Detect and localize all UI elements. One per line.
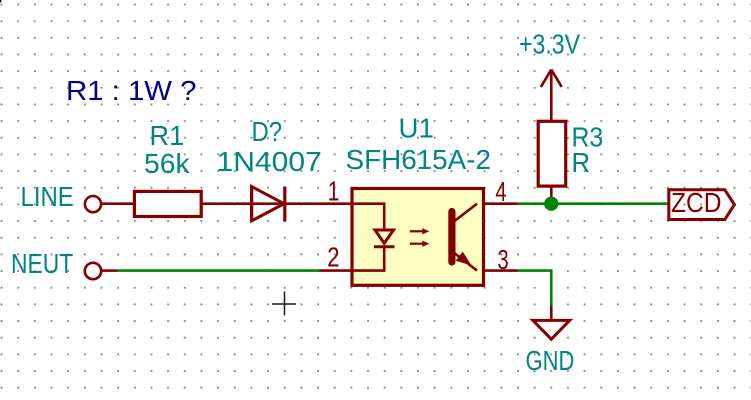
svg-text:+3.3V: +3.3V [519,29,581,60]
svg-text:LINE: LINE [21,181,74,212]
svg-text:D?: D? [252,116,283,147]
svg-text:SFH615A-2: SFH615A-2 [346,144,492,175]
svg-text:4: 4 [495,176,506,207]
svg-text:GND: GND [526,345,575,376]
svg-text:U1: U1 [399,112,434,143]
svg-text:1N4007: 1N4007 [217,146,322,177]
svg-text:R1 : 1W ?: R1 : 1W ? [66,75,197,106]
svg-text:R1: R1 [150,120,185,151]
svg-text:R: R [572,147,591,178]
svg-text:3: 3 [497,244,508,275]
svg-text:NEUT: NEUT [11,248,73,279]
svg-text:ZCD: ZCD [671,187,722,218]
svg-text:2: 2 [327,242,340,273]
svg-text:56k: 56k [144,148,190,179]
svg-text:1: 1 [328,176,340,207]
